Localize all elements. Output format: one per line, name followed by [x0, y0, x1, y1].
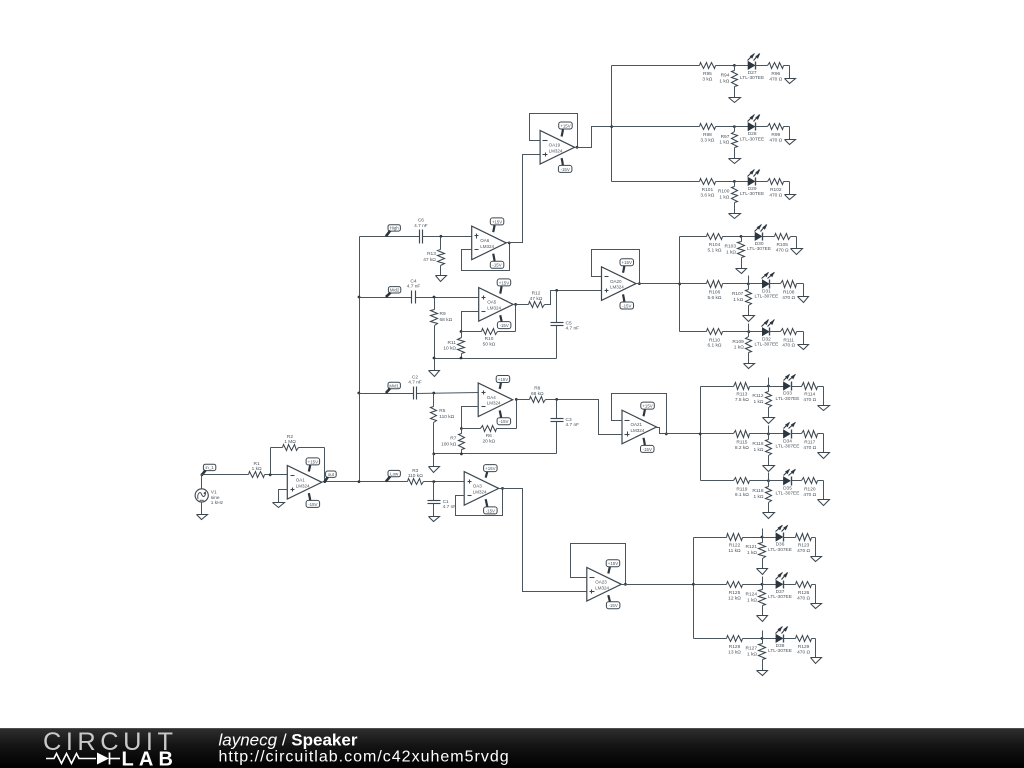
LED D27: [740, 53, 764, 81]
svg-text:5.6 kΩ: 5.6 kΩ: [708, 295, 722, 301]
junction bus/out row: [358, 480, 361, 483]
svg-text:1 kHz: 1 kHz: [211, 500, 224, 506]
svg-text:R10: R10: [485, 336, 494, 342]
resistor R103: [725, 237, 745, 269]
svg-text:OA3: OA3: [473, 484, 483, 489]
svg-text:9.1 kΩ: 9.1 kΩ: [735, 492, 749, 498]
svg-text:LTL-307EE: LTL-307EE: [776, 444, 800, 450]
wire R6 to OA4 output: [516, 400, 518, 429]
resistor R117: [802, 431, 824, 451]
power +15V label of OA1: [306, 458, 320, 472]
ground right of R102: [785, 195, 796, 200]
wire: [784, 584, 796, 586]
LED D29: [740, 169, 764, 197]
power +15V label of OA4: [496, 376, 510, 389]
junction R10/R11: [460, 330, 463, 333]
junction bank4 bus: [692, 583, 695, 586]
LED D32: [754, 320, 778, 348]
resistor R8: [517, 386, 546, 403]
junction at R127: [761, 637, 764, 640]
op-amp OA20: [602, 267, 637, 301]
junction bank3 bus: [699, 433, 702, 436]
op-amp OA4: [478, 383, 513, 417]
svg-text:+15V: +15V: [560, 123, 570, 128]
wire to ground: [796, 237, 798, 249]
svg-text:+15V: +15V: [492, 219, 502, 224]
svg-text:D32: D32: [762, 336, 771, 342]
LED D30: [747, 224, 771, 252]
wire rail to ground: [434, 359, 436, 371]
svg-text:OA5: OA5: [487, 300, 497, 305]
svg-text:12 kΩ: 12 kΩ: [728, 595, 741, 601]
wire C5 top: [556, 291, 558, 323]
wire C3 bottom to rail: [556, 422, 558, 454]
ground below R94: [729, 98, 741, 103]
junction OA5 output: [514, 303, 517, 306]
wire bank4 bus: [693, 538, 695, 639]
resistor R116: [752, 434, 771, 466]
svg-text:470 Ω: 470 Ω: [776, 247, 789, 253]
svg-text:in_1: in_1: [205, 465, 214, 470]
svg-text:R9: R9: [440, 311, 446, 317]
svg-text:D37: D37: [776, 589, 785, 595]
wire bank3 row R119 row left: [701, 480, 734, 482]
wire: [770, 331, 781, 333]
wire up to R2: [270, 448, 272, 475]
wire R1 to OA1 inverting input: [271, 474, 288, 476]
svg-text:-15V: -15V: [643, 447, 652, 452]
wire: [756, 181, 768, 183]
resistor R1: [249, 461, 271, 478]
svg-text:1 kΩ: 1 kΩ: [719, 194, 729, 200]
junction C2/R5: [432, 392, 435, 395]
svg-text:LTL-307EE: LTL-307EE: [768, 594, 792, 600]
wire to ground: [789, 127, 791, 140]
wire: [769, 433, 784, 435]
svg-text:1 kΩ: 1 kΩ: [754, 447, 764, 453]
junction OA3 output: [501, 487, 504, 490]
resistor R100: [718, 182, 738, 214]
wire bank1 row R95 row left: [612, 65, 700, 67]
svg-text:470 Ω: 470 Ω: [782, 295, 795, 301]
power -15V label of OA3: [484, 499, 498, 514]
junction OA21 output: [665, 433, 668, 436]
svg-text:LM324: LM324: [610, 285, 624, 290]
svg-text:1 kΩ: 1 kΩ: [754, 399, 764, 405]
svg-text:47 kΩ: 47 kΩ: [423, 257, 436, 263]
svg-text:LM324: LM324: [595, 585, 609, 590]
svg-text:LM324: LM324: [473, 489, 487, 494]
svg-text:1 kΩ: 1 kΩ: [734, 345, 744, 351]
junction OA20 output: [638, 282, 641, 285]
resistor R119: [734, 478, 769, 498]
svg-text:470 Ω: 470 Ω: [769, 76, 782, 82]
svg-text:D33: D33: [783, 391, 792, 397]
svg-text:LM324: LM324: [487, 401, 501, 406]
op-amp OA6: [472, 226, 507, 260]
resistor R2: [271, 434, 325, 451]
resistor R3: [408, 468, 434, 485]
wire bank2 bus: [679, 237, 681, 332]
wire bank3 row R113 row left: [701, 386, 734, 388]
svg-text:OA6: OA6: [480, 238, 490, 243]
wire: [769, 480, 784, 482]
wire to ground: [789, 66, 791, 79]
svg-text:D29: D29: [748, 186, 757, 192]
wire C3 top: [556, 400, 558, 419]
ground below R118: [763, 513, 775, 519]
wire: [763, 638, 777, 640]
wire stub: [762, 577, 764, 585]
wire: [742, 236, 756, 238]
svg-text:1 kΩ: 1 kΩ: [252, 466, 262, 472]
wire main vertical bus: [359, 237, 361, 482]
svg-text:+15V: +15V: [485, 466, 495, 471]
wire bank1 bus: [611, 66, 613, 182]
svg-text:R119: R119: [736, 486, 747, 492]
svg-text:5.1 kΩ: 5.1 kΩ: [708, 247, 722, 253]
svg-text:470 Ω: 470 Ω: [769, 138, 782, 144]
svg-text:LAB: LAB: [122, 749, 179, 768]
svg-text:C6: C6: [418, 218, 424, 224]
op-amp OA23: [587, 568, 622, 602]
node Low: [386, 470, 401, 481]
junction OA4 output: [515, 398, 518, 401]
wire to ground: [823, 481, 825, 500]
resistor R122: [727, 534, 763, 555]
wire: [756, 126, 768, 128]
resistor R101: [700, 179, 735, 199]
svg-text:470 Ω: 470 Ω: [797, 595, 810, 601]
svg-text:R107: R107: [732, 291, 744, 297]
wire: [749, 331, 763, 333]
svg-text:R3: R3: [412, 468, 418, 474]
svg-text:R120: R120: [804, 486, 816, 492]
svg-text:R110: R110: [709, 337, 720, 343]
svg-text:+15V: +15V: [498, 377, 508, 382]
svg-text:470 Ω: 470 Ω: [803, 397, 816, 403]
op-amp OA21: [622, 410, 657, 444]
node Mid2: [386, 287, 401, 297]
svg-text:100 kΩ: 100 kΩ: [441, 441, 457, 447]
resistor R127: [746, 639, 766, 671]
svg-text:3.6 kΩ: 3.6 kΩ: [700, 192, 714, 198]
ground right of R129: [811, 658, 822, 664]
svg-text:+15V: +15V: [308, 459, 318, 464]
LED D28: [740, 114, 764, 142]
svg-text:R112: R112: [752, 393, 763, 399]
wire to ground: [815, 538, 817, 557]
svg-text:R116: R116: [752, 441, 763, 447]
svg-text:R101: R101: [702, 187, 714, 193]
svg-text:V1: V1: [211, 489, 217, 495]
junction bus/Mid2 row: [358, 296, 361, 299]
svg-text:R104: R104: [709, 242, 721, 248]
ground below R124: [757, 616, 768, 622]
wire C1 bottom: [433, 504, 435, 517]
svg-text:R111: R111: [783, 337, 794, 343]
svg-text:3 kΩ: 3 kΩ: [702, 76, 712, 82]
svg-text:47 kΩ: 47 kΩ: [530, 296, 543, 302]
resistor R104: [707, 234, 742, 254]
svg-text:110 kΩ: 110 kΩ: [408, 473, 423, 479]
resistor R123: [796, 534, 816, 555]
wire bus to C6: [360, 236, 420, 238]
wire bank4 row R122 row left: [694, 537, 727, 539]
resistor R102: [768, 179, 790, 199]
junction at R97: [733, 125, 736, 128]
resistor R114: [802, 383, 824, 404]
wire stub: [748, 276, 750, 284]
junction at R103: [740, 235, 743, 238]
resistor R121: [746, 538, 766, 569]
junction at R121: [761, 536, 764, 539]
wire bank2 row R110 row left: [680, 331, 707, 333]
wire: [784, 638, 796, 640]
resistor R126: [796, 582, 816, 602]
svg-text:sine: sine: [211, 495, 220, 501]
LED D31: [754, 272, 778, 300]
ground below R127: [757, 671, 768, 676]
wire bus to C4: [360, 297, 412, 299]
svg-text:4.7 nF: 4.7 nF: [443, 504, 457, 510]
wire OA23 output to bank4 bus: [622, 584, 694, 586]
wire stub: [768, 473, 770, 481]
ground below R109: [744, 364, 755, 369]
svg-text:LTL-307EE: LTL-307EE: [754, 294, 778, 300]
resistor R13: [423, 237, 444, 276]
wire to ground: [815, 585, 817, 604]
wire stub: [768, 378, 770, 387]
svg-text:D30: D30: [755, 241, 764, 247]
svg-text:R127: R127: [746, 646, 758, 652]
wire: [763, 537, 777, 539]
wire bus to C2: [359, 393, 414, 395]
svg-text:R114: R114: [804, 392, 815, 398]
power -15V label of OA1: [306, 493, 320, 507]
ground below R13: [436, 276, 447, 282]
power -15V label of OA19: [558, 158, 572, 172]
resistor R98: [700, 124, 735, 144]
power -15V label of OA4: [497, 411, 511, 425]
svg-text:+15V: +15V: [608, 561, 618, 566]
svg-text:-15V: -15V: [622, 303, 631, 308]
power -15V label of OA21: [641, 438, 655, 453]
svg-text:470 Ω: 470 Ω: [769, 192, 782, 198]
wire C1 top: [433, 482, 435, 501]
power +15V label of OA6: [490, 218, 504, 232]
wire C4 to OA5 + input: [416, 297, 479, 299]
svg-text:13 kΩ: 13 kΩ: [728, 649, 741, 655]
svg-text:OA21: OA21: [631, 422, 643, 427]
junction C4/R9: [433, 296, 436, 299]
junction R1/R2: [269, 473, 272, 476]
svg-text:R2: R2: [287, 434, 293, 440]
svg-text:4.7 nF: 4.7 nF: [566, 422, 580, 428]
wire bus to R3: [360, 481, 408, 483]
svg-text:470 Ω: 470 Ω: [797, 649, 810, 655]
ground right of R99: [785, 140, 796, 145]
resistor R108: [781, 281, 804, 301]
resistor R10: [462, 329, 516, 348]
svg-text:1 kΩ: 1 kΩ: [719, 140, 729, 146]
svg-text:R113: R113: [736, 392, 747, 398]
svg-text:50 kΩ: 50 kΩ: [483, 341, 496, 347]
wire OA3 feedback loop: [456, 489, 503, 516]
junction OA19 output: [576, 146, 579, 149]
svg-text:OA1: OA1: [296, 478, 306, 483]
ground right of R108: [798, 297, 809, 303]
capacitor C5: [551, 321, 580, 332]
svg-text:4.7 nF: 4.7 nF: [407, 284, 421, 290]
svg-text:R103: R103: [725, 244, 737, 250]
junction at R107: [747, 283, 750, 286]
svg-text:Low: Low: [390, 471, 399, 476]
svg-text:R6: R6: [486, 433, 492, 439]
wire bank3 bus: [700, 387, 702, 481]
ground right of R123: [811, 557, 822, 562]
svg-text:R102: R102: [770, 187, 782, 193]
wire to ground: [823, 387, 825, 406]
power +15V label of OA21: [641, 402, 655, 416]
node Mid1: [386, 382, 401, 393]
svg-text:R96: R96: [771, 71, 780, 77]
svg-text:-15V: -15V: [561, 167, 570, 172]
wire bank2 row R104 row left: [680, 236, 707, 238]
junction R9/rail: [433, 357, 436, 360]
wire OA21 output to bank3 bus: [655, 428, 701, 434]
resistor R115: [734, 431, 769, 451]
resistor R95: [700, 63, 735, 83]
svg-text:R100: R100: [718, 189, 730, 195]
svg-text:+15V: +15V: [499, 280, 509, 285]
svg-text:470 Ω: 470 Ω: [782, 343, 795, 349]
ground right of R111: [798, 345, 809, 350]
svg-text:D28: D28: [748, 131, 757, 137]
junction in_1 node: [201, 473, 204, 476]
svg-text:4.7 nF: 4.7 nF: [566, 326, 580, 332]
ground below R112: [763, 418, 775, 424]
LED D37: [768, 572, 792, 600]
svg-text:-15V: -15V: [609, 603, 618, 608]
ground below R97: [729, 159, 741, 164]
resistor R109: [732, 332, 751, 364]
svg-text:R109: R109: [732, 339, 744, 345]
wire: [784, 537, 796, 539]
wire OA19 feedback loop: [530, 114, 578, 148]
svg-text:D38: D38: [776, 643, 785, 649]
svg-text:C2: C2: [412, 374, 418, 380]
svg-text:OA19: OA19: [549, 143, 561, 148]
svg-text:LM324: LM324: [296, 483, 310, 488]
svg-text:+15V: +15V: [622, 260, 632, 265]
svg-text:R121: R121: [746, 544, 758, 550]
wire bank1 row R98 row left: [612, 126, 700, 128]
svg-text:R124: R124: [746, 592, 758, 598]
svg-text:-15V: -15V: [499, 419, 508, 424]
resistor R110: [707, 329, 749, 349]
ground right of R117: [818, 453, 830, 459]
junction bus/Mid1 row: [357, 392, 360, 395]
wire V1 to ground: [201, 502, 203, 515]
ground below C1: [429, 517, 440, 522]
svg-text:LM324: LM324: [480, 244, 494, 249]
wire to ground: [815, 639, 817, 658]
junction at R112: [767, 385, 770, 388]
junction R8/C3: [555, 398, 558, 401]
wire: [756, 65, 768, 67]
ground below R103: [736, 269, 747, 274]
ground below R107: [743, 316, 755, 322]
ground at OA1 + input: [273, 503, 285, 508]
wire OA1 + input to ground: [279, 490, 288, 503]
svg-text:1 MΩ: 1 MΩ: [284, 439, 296, 445]
wire R10 to OA5 output: [515, 305, 517, 332]
power +15V label of OA3: [484, 465, 498, 478]
svg-text:20 kΩ: 20 kΩ: [482, 438, 495, 444]
svg-text:6.1 kΩ: 6.1 kΩ: [708, 343, 722, 349]
wire stub: [748, 324, 750, 332]
svg-text:R13: R13: [427, 251, 436, 257]
op-amp OA1: [287, 466, 322, 500]
capacitor C6: [414, 218, 428, 244]
svg-text:R94: R94: [721, 73, 730, 79]
svg-text:OA4: OA4: [487, 395, 497, 400]
svg-text:1 kΩ: 1 kΩ: [754, 494, 764, 500]
wire OA23 feedback loop: [571, 544, 626, 585]
wire stub: [762, 631, 764, 639]
svg-text:C4: C4: [410, 278, 416, 284]
junction R11/rail: [460, 357, 463, 360]
svg-text:+15V: +15V: [642, 404, 652, 409]
resistor R97: [719, 127, 737, 159]
svg-text:LTL-307EE: LTL-307EE: [776, 491, 800, 497]
junction at R124: [761, 583, 764, 586]
svg-text:LTL-30TEE: LTL-30TEE: [740, 136, 764, 142]
ground below R100: [729, 214, 741, 219]
wire to ground: [789, 182, 791, 195]
wire OA1 output to bus: [323, 481, 360, 483]
svg-text:OA23: OA23: [595, 580, 607, 585]
svg-text:R98: R98: [703, 132, 712, 138]
ground right of R120: [818, 500, 830, 506]
wire to ground: [803, 332, 805, 345]
svg-text:1 kΩ: 1 kΩ: [747, 651, 757, 657]
svg-text:R5: R5: [439, 408, 445, 414]
svg-text:R7: R7: [450, 436, 456, 442]
ground right of R114: [818, 406, 830, 411]
svg-text:LTL-307EE: LTL-307EE: [768, 547, 792, 553]
ground right of R96: [785, 79, 796, 84]
wire in_1 to R1: [202, 474, 249, 476]
svg-text:R129: R129: [798, 644, 810, 650]
op-amp OA3: [464, 472, 499, 506]
junction OA23 output: [624, 583, 627, 586]
capacitor C3: [551, 417, 580, 428]
svg-text:470 Ω: 470 Ω: [803, 445, 816, 451]
power -15V label of OA23: [606, 595, 620, 609]
junction at R94: [733, 64, 736, 67]
svg-text:R128: R128: [729, 644, 741, 650]
node out: [325, 471, 336, 482]
ground right of R126: [811, 604, 822, 609]
junction out node: [323, 480, 326, 483]
svg-text:LTL-307EE: LTL-307EE: [754, 342, 778, 348]
wire: [769, 386, 784, 388]
svg-text:R1: R1: [254, 461, 260, 467]
ground mid2 rail: [429, 371, 440, 377]
wire OA4 - input to R6/R7: [462, 407, 479, 429]
